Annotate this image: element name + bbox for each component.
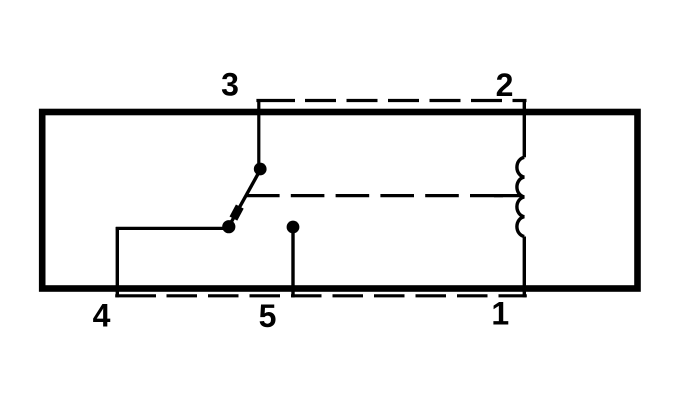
pivot node common — [222, 220, 235, 233]
coil L1 — [517, 157, 524, 236]
mechanical link dashed line (armature to coil) — [246, 194, 521, 197]
pin 3 lead wire — [257, 99, 260, 169]
pin 4 lead wire — [116, 227, 119, 297]
contact node at pin 3 — [254, 163, 267, 176]
pin 2 lead wire — [523, 99, 526, 157]
enclosure dashed top line (pin 3 to pin 2) — [256, 99, 526, 102]
svg-text:1: 1 — [491, 296, 509, 332]
relay case outline — [42, 112, 637, 289]
contact node at pin 5 — [287, 221, 300, 234]
svg-text:2: 2 — [496, 67, 514, 103]
enclosure dashed bottom line (pin 4 to pin 1) — [115, 294, 527, 297]
svg-text:4: 4 — [93, 298, 111, 334]
pin 1 lead wire — [523, 237, 526, 298]
svg-text:5: 5 — [259, 298, 277, 334]
pin 5 lead wire — [291, 227, 294, 297]
wire common to pivot — [116, 227, 229, 230]
switch armature arm — [226, 170, 260, 231]
svg-text:3: 3 — [221, 67, 239, 103]
armature contact blade — [233, 207, 239, 219]
